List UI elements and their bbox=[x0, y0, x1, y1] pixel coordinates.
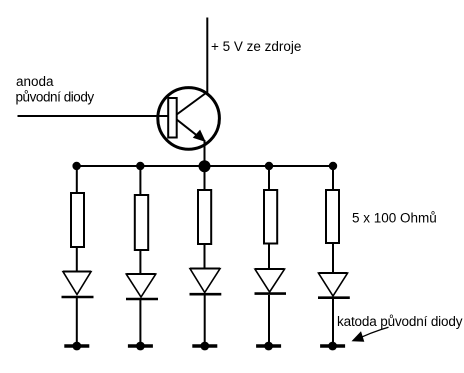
svg-text:5 x 100 Ohmů: 5 x 100 Ohmů bbox=[352, 210, 437, 225]
svg-text:katoda původní diody: katoda původní diody bbox=[337, 314, 463, 329]
svg-text:+ 5 V ze zdroje: + 5 V ze zdroje bbox=[211, 39, 301, 54]
svg-text:anoda: anoda bbox=[16, 74, 54, 89]
svg-text:původní diody: původní diody bbox=[16, 90, 95, 105]
